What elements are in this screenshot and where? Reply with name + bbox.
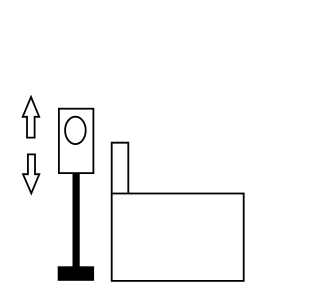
large box (112, 194, 244, 281)
small chimney box on large box (112, 143, 129, 194)
speaker cone ellipse (65, 117, 86, 144)
down block arrow (23, 154, 39, 193)
stand base (58, 266, 94, 281)
up block arrow (23, 97, 40, 138)
speaker box (59, 109, 94, 173)
stand pole (73, 173, 80, 267)
